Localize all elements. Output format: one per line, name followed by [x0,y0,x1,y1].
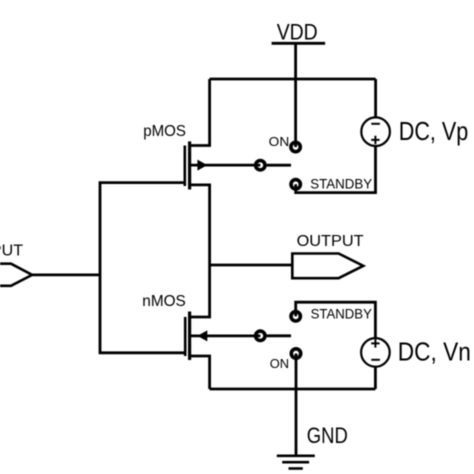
svg-text:STANDBY: STANDBY [310,176,373,192]
svg-text:DC, Vn: DC, Vn [398,337,471,367]
svg-text:ON: ON [270,356,289,371]
svg-text:OUTPUT: OUTPUT [297,233,364,250]
svg-text:DC, Vp: DC, Vp [399,116,469,146]
svg-text:INPUT: INPUT [0,242,23,259]
svg-text:STANDBY: STANDBY [311,305,373,321]
svg-text:ON: ON [269,134,290,149]
svg-text:GND: GND [307,423,348,448]
svg-text:VDD: VDD [277,19,318,44]
svg-text:pMOS: pMOS [143,123,186,140]
svg-text:nMOS: nMOS [142,293,186,310]
